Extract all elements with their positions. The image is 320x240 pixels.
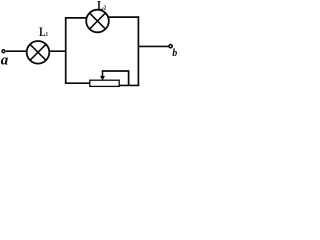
wire top branch left [65,17,87,19]
lamp L2 [86,10,109,33]
wire node to terminal b [138,45,169,47]
svg-text:b: b [172,48,177,59]
wire bottom branch left [65,82,90,84]
resistor R rheostat body [90,80,119,86]
wire slider tap vertical [128,70,130,86]
wire L1 to left node [49,50,66,52]
wire right vertical branch node [137,16,139,86]
terminal a [2,50,5,53]
wire left vertical branch node [65,18,67,83]
terminal b [169,45,172,48]
wire a to L1 [6,50,27,52]
svg-text:a: a [1,53,9,69]
wire top branch right [109,16,140,18]
svg-text:L2: L2 [97,0,106,13]
rheostat slider arrow [100,71,105,81]
lamp L1 [27,41,50,64]
svg-text:L1: L1 [39,26,48,40]
wire slider tap horizontal [102,70,129,72]
wire bottom branch right [119,84,139,86]
